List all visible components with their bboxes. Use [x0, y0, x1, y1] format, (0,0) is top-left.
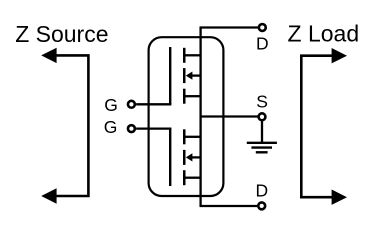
ground [247, 143, 277, 153]
Q2 channel segment body [183, 150, 186, 165]
Q2 channel segment drain [183, 129, 186, 144]
transistor Q1 (top MOSFET) [170, 47, 200, 104]
wire: S to ground [261, 121, 263, 143]
Q2 channel segment source [183, 170, 186, 185]
svg-text:D: D [256, 34, 269, 54]
wire: gate 1 lead [136, 103, 171, 105]
Z Load bracket wire [301, 56, 332, 198]
svg-text:Z Source: Z Source [15, 21, 108, 47]
Z Source arrow bottom [41, 188, 56, 203]
Z Load arrow top [332, 48, 347, 63]
Q2 drain stub [185, 136, 201, 138]
Q1 gate bar [169, 47, 171, 104]
Q1 channel segment source [183, 89, 186, 104]
wire: common source to terminal S [201, 115, 258, 117]
transistor Q2 (bottom MOSFET) [170, 129, 200, 186]
Q1 channel segment body [183, 68, 186, 83]
wire: bottom drain to terminal D2 [200, 205, 258, 207]
Q1 body arrow [186, 72, 193, 80]
terminal D1 circle [259, 24, 266, 31]
Z Load arrow bottom [332, 190, 347, 205]
terminal S circle [259, 113, 266, 120]
Q1 channel segment drain [183, 48, 186, 63]
wire: top drain to terminal D1 [200, 26, 259, 28]
terminal D2 circle [258, 202, 265, 209]
svg-text:Z Load: Z Load [288, 21, 360, 47]
svg-text:G: G [104, 95, 118, 115]
package outline U1 [149, 37, 224, 196]
terminal G1 circle [128, 101, 135, 108]
wire: drain backbone vertical [199, 28, 201, 207]
Q2 source stub [185, 177, 201, 179]
terminal G2 circle [128, 125, 135, 132]
Q2 gate bar [169, 129, 171, 186]
Q1 source stub [185, 95, 201, 97]
Q1 drain stub [185, 54, 201, 56]
wire: gate 2 lead [136, 127, 171, 129]
svg-text:D: D [256, 180, 269, 200]
svg-text:S: S [256, 92, 268, 112]
Q2 body stub [191, 156, 201, 158]
Z Source arrow top [41, 48, 56, 63]
Q1 body stub [191, 74, 201, 76]
Q2 body arrow [186, 153, 193, 161]
svg-text:G: G [104, 117, 118, 137]
Z Source bracket wire [56, 55, 89, 196]
